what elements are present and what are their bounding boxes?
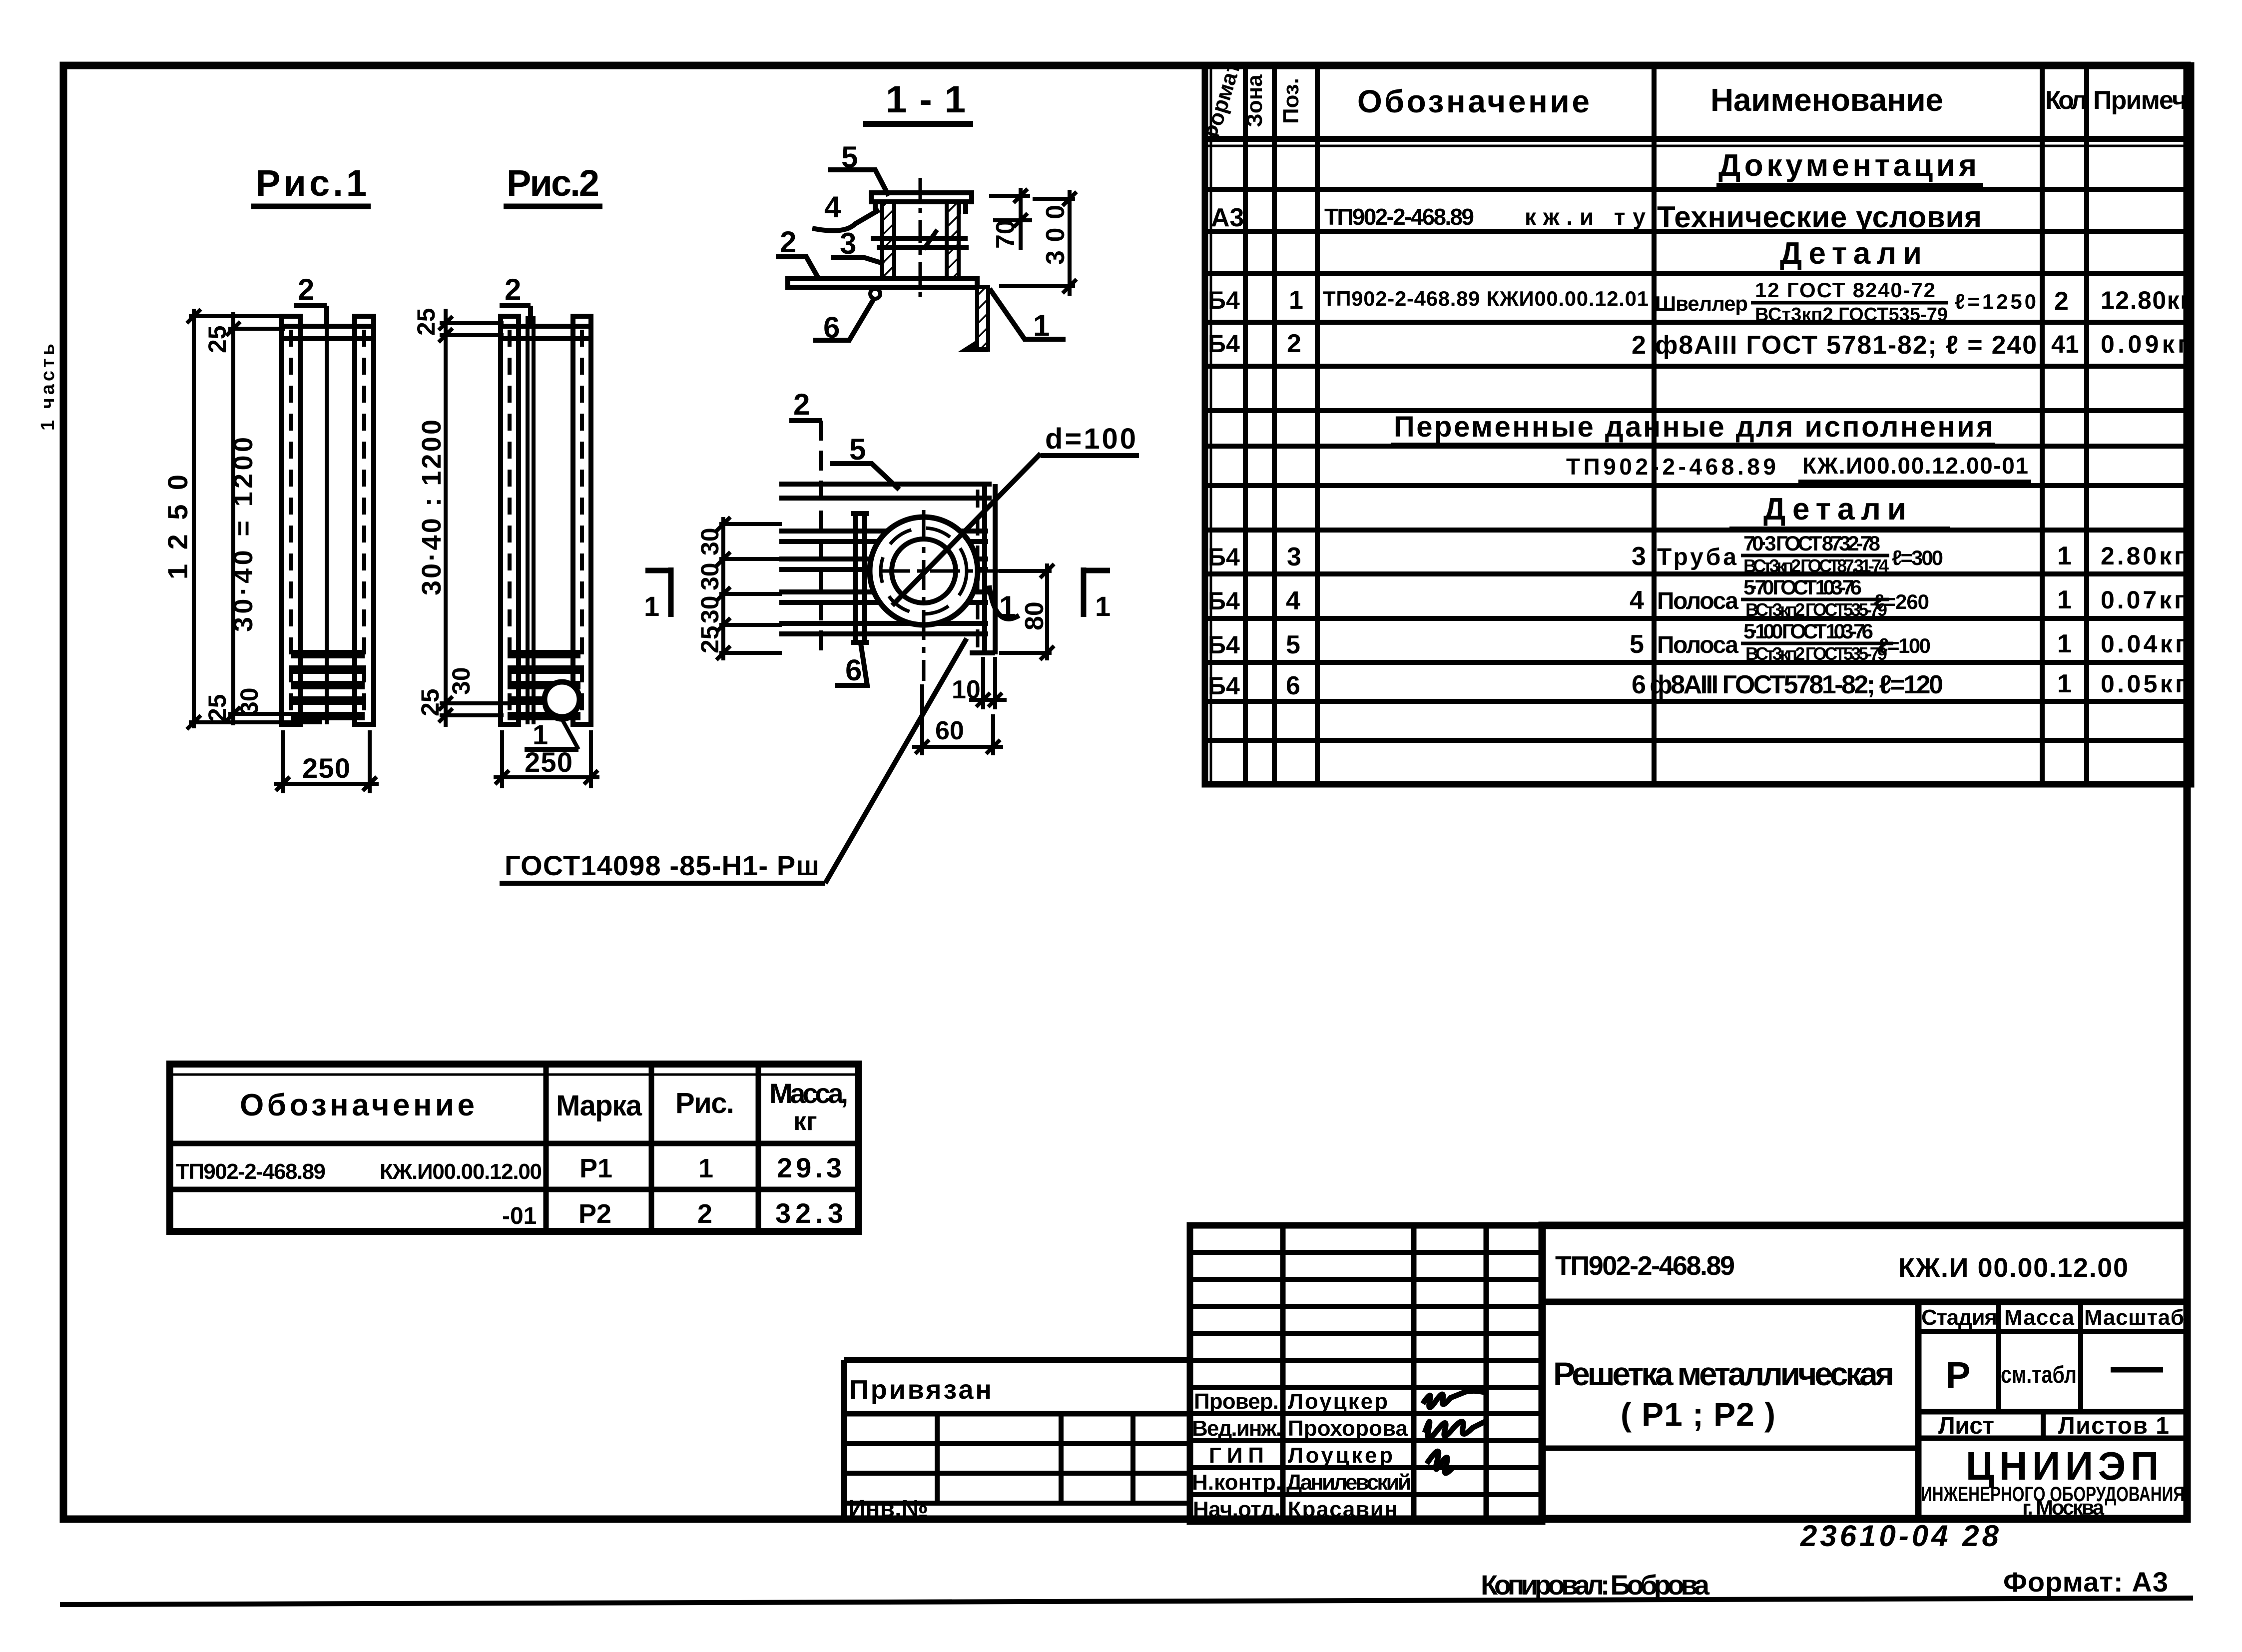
- svg-text:Инв.№: Инв.№: [848, 1496, 928, 1522]
- Рис.1 top cross bar: [281, 326, 374, 339]
- spec row: Переменные данные section: [1391, 411, 1995, 445]
- svg-text:Лист: Лист: [1938, 1413, 1994, 1439]
- svg-text:Р: Р: [1946, 1354, 1970, 1396]
- svg-text:300: 300: [1041, 205, 1070, 265]
- svg-text:Вед.инж.: Вед.инж.: [1192, 1416, 1282, 1441]
- svg-text:Примеч: Примеч: [2093, 86, 2187, 115]
- svg-text:Прохорова: Прохорова: [1288, 1416, 1408, 1441]
- svg-text:30: 30: [696, 528, 724, 555]
- svg-text:1: 1: [533, 719, 548, 750]
- plan section mark 1 right: [1084, 568, 1110, 573]
- svg-text:250: 250: [525, 746, 572, 778]
- part 4 pointer arrow: [924, 230, 937, 249]
- plan pipe inner circle: [892, 539, 956, 603]
- svg-text:Рис.1: Рис.1: [256, 162, 367, 204]
- spec row 4: Полоса 5х70: [1208, 575, 2185, 620]
- plan dim 10: [969, 657, 1007, 709]
- svg-text:Поз.: Поз.: [1279, 78, 1303, 124]
- svg-text:1 часть: 1 часть: [37, 341, 58, 431]
- svg-text:2 ф8АIII ГОСТ 5781-82; ℓ = 2: 2 ф8АIII ГОСТ 5781-82; ℓ = 240: [1632, 331, 2037, 360]
- svg-text:ℓ=260: ℓ=260: [1874, 590, 1929, 613]
- Рис.1 dim 250 bottom: [274, 730, 379, 793]
- svg-text:80: 80: [1020, 601, 1049, 630]
- svg-text:Р2: Р2: [578, 1199, 611, 1229]
- plan d=100 leader diagonal: [892, 454, 1041, 605]
- svg-text:ВСт3кп2 ГОСТ535-79: ВСт3кп2 ГОСТ535-79: [1745, 643, 1887, 664]
- Рис.2 middle bar edge lines: [526, 316, 530, 724]
- plan cut trace dashed: [819, 421, 823, 652]
- svg-text:25: 25: [203, 325, 231, 353]
- svg-text:Б4: Б4: [1208, 330, 1240, 358]
- svg-text:1: 1: [2057, 629, 2072, 658]
- Рис.1 left channel rail: [281, 316, 300, 724]
- svg-text:30·40 = 1200: 30·40 = 1200: [228, 437, 258, 632]
- svg-text:-01: -01: [502, 1203, 537, 1229]
- svg-text:70: 70: [991, 220, 1020, 249]
- svg-text:30: 30: [235, 687, 263, 715]
- svg-text:Б4: Б4: [1208, 672, 1240, 700]
- svg-text:23610-04 28: 23610-04 28: [1800, 1519, 2002, 1553]
- svg-text:Б4: Б4: [1208, 631, 1240, 659]
- svg-text:КЖ.И 00.00.12.00: КЖ.И 00.00.12.00: [1898, 1253, 2128, 1283]
- svg-text:Масса: Масса: [2004, 1305, 2075, 1330]
- svg-text:Рис.: Рис.: [675, 1087, 734, 1119]
- Рис.1 middle bar edge line: [325, 316, 329, 724]
- svg-text:2: 2: [697, 1199, 712, 1229]
- svg-text:Стадия: Стадия: [1921, 1305, 1997, 1330]
- svg-text:Нач.отд.: Нач.отд.: [1193, 1497, 1280, 1522]
- Привязан box: [844, 1360, 1190, 1522]
- svg-text:10: 10: [952, 675, 981, 704]
- svg-text:60: 60: [935, 716, 964, 745]
- spec row 3: Труба: [1208, 532, 2185, 576]
- svg-text:ГИП: ГИП: [1209, 1443, 1264, 1468]
- svg-text:ЦНИИЭП: ЦНИИЭП: [1966, 1444, 2164, 1488]
- Рис.2 pipe hole circle: [545, 682, 579, 717]
- Рис.2 dim 250 bottom: [494, 730, 599, 788]
- svg-text:3: 3: [1632, 542, 1646, 571]
- svg-text:( Р1 ; Р2 ): ( Р1 ; Р2 ): [1621, 1396, 1775, 1433]
- Рис.2 left channel rail: [501, 316, 519, 724]
- svg-text:Копировал: Боброва: Копировал: Боброва: [1481, 1569, 1710, 1601]
- svg-text:30: 30: [696, 562, 724, 590]
- svg-text:30: 30: [447, 667, 475, 695]
- svg-text:Б4: Б4: [1208, 587, 1240, 615]
- plan dim 60: [912, 684, 1003, 755]
- svg-text:41: 41: [2051, 330, 2079, 358]
- svg-text:2: 2: [2054, 287, 2069, 316]
- svg-text:Технические условия: Технические условия: [1657, 200, 1982, 234]
- Рис.1 bottom rungs: [291, 650, 365, 720]
- svg-text:6 ф8АIII ГОСТ5781-82; ℓ=120: 6 ф8АIII ГОСТ5781-82; ℓ=120: [1632, 670, 1943, 699]
- svg-text:1: 1: [1095, 590, 1111, 622]
- part 4 ring plate lines: [871, 236, 968, 241]
- svg-text:Обозначение: Обозначение: [240, 1088, 475, 1122]
- svg-text:Р1: Р1: [579, 1153, 612, 1183]
- svg-text:25: 25: [203, 694, 231, 722]
- spec row: КЖ.И00.00.12.00-01: [1566, 453, 2031, 482]
- plan bar 2: [779, 531, 988, 542]
- svg-text:Листов 1: Листов 1: [2058, 1413, 2169, 1439]
- plan bar 3: [779, 559, 988, 569]
- svg-text:1: 1: [2057, 585, 2072, 614]
- svg-text:6: 6: [845, 653, 862, 687]
- svg-text:2: 2: [505, 273, 521, 306]
- svg-text:4: 4: [1630, 586, 1644, 615]
- svg-text:Лоуцкер: Лоуцкер: [1288, 1389, 1388, 1414]
- svg-text:2: 2: [793, 388, 810, 421]
- centerline of pipe: [919, 178, 922, 297]
- svg-text:1: 1: [644, 590, 659, 622]
- part 3 pipe wall right (hatched): [947, 202, 959, 278]
- svg-text:Данилевский: Данилевский: [1286, 1470, 1411, 1495]
- svg-text:ТП902-2-468.89: ТП902-2-468.89: [1324, 204, 1474, 230]
- svg-text:ВСт3кп2 ГОСТ535-79: ВСт3кп2 ГОСТ535-79: [1745, 599, 1887, 620]
- svg-text:Зона: Зона: [1242, 74, 1267, 127]
- svg-text:4: 4: [824, 190, 841, 224]
- svg-text:d=100: d=100: [1045, 423, 1136, 455]
- svg-text:Масштаб: Масштаб: [2084, 1305, 2184, 1330]
- spec row 5: Полоса 5х100: [1208, 619, 2186, 664]
- svg-text:Красавин: Красавин: [1288, 1497, 1398, 1522]
- svg-text:кг: кг: [793, 1107, 817, 1136]
- part 2 bottom bar: [788, 278, 977, 287]
- svg-text:6: 6: [1286, 671, 1300, 700]
- title block central signature grid: [1190, 1225, 1542, 1522]
- svg-text:1: 1: [698, 1153, 713, 1183]
- svg-text:КЖ.И00.00.12.00: КЖ.И00.00.12.00: [380, 1159, 542, 1184]
- svg-text:А3: А3: [1211, 203, 1244, 232]
- plan dim 80: [999, 563, 1054, 660]
- plan stub channel part6: [851, 514, 869, 642]
- bottom copy strip line: [60, 1598, 2193, 1605]
- spec row: Документация section title: [1716, 148, 1983, 185]
- dim 70: [989, 188, 1032, 250]
- svg-text:ВСт3кп2 ГОСТ535-79: ВСт3кп2 ГОСТ535-79: [1755, 304, 1948, 325]
- Рис.2 bottom rungs: [508, 650, 580, 720]
- svg-text:Переменные данные для исполне: Переменные данные для исполнения: [1394, 411, 1993, 443]
- spec row 2: rod ф8АIII l=240: [1208, 329, 2188, 360]
- spec header texts: [1197, 59, 2187, 147]
- marks table row P2: [502, 1197, 843, 1229]
- svg-text:ГОСТ14098 -85-Н1- Рш: ГОСТ14098 -85-Н1- Рш: [505, 850, 819, 881]
- svg-text:70·3 ГОСТ 8732-78: 70·3 ГОСТ 8732-78: [1743, 532, 1880, 555]
- svg-text:ТП902-2-468.89: ТП902-2-468.89: [1555, 1251, 1735, 1281]
- svg-text:5: 5: [1630, 630, 1644, 659]
- dim 300: [999, 190, 1077, 296]
- plan top bar: [779, 484, 992, 498]
- Рис.2 top cross bar: [501, 326, 591, 339]
- svg-text:1: 1: [1289, 286, 1303, 315]
- stage mass scale header: [1921, 1305, 2184, 1330]
- marks table row P1: [176, 1152, 842, 1184]
- Рис.1 dim 30x40=1200 line: [226, 312, 356, 725]
- svg-text:Б4: Б4: [1208, 286, 1240, 314]
- svg-text:Документация: Документация: [1718, 148, 1981, 183]
- svg-text:5·100 ГОСТ 103-76: 5·100 ГОСТ 103-76: [1743, 619, 1873, 643]
- plan pipe dashed mid circle: [881, 528, 967, 614]
- svg-text:3: 3: [1287, 543, 1301, 571]
- spec row 6: rod ф8АIII l=120: [1208, 669, 2186, 700]
- svg-text:ВСт3кп2 ГОСТ87,31-74: ВСт3кп2 ГОСТ87,31-74: [1743, 555, 1889, 576]
- svg-text:ТП902-2-468.89 КЖИ00.00.12.0: ТП902-2-468.89 КЖИ00.00.12.01: [1323, 287, 1649, 310]
- svg-text:30: 30: [696, 595, 724, 623]
- svg-text:ℓ=100: ℓ=100: [1878, 634, 1931, 657]
- svg-text:Масса,: Масса,: [769, 1078, 848, 1109]
- svg-text:см.табл: см.табл: [2001, 1362, 2077, 1388]
- marks table grid: [170, 1064, 858, 1231]
- svg-text:г. Москва: г. Москва: [2022, 1496, 2105, 1519]
- svg-text:Н.контр.: Н.контр.: [1192, 1470, 1282, 1495]
- Рис.1 right channel rail: [355, 316, 374, 724]
- plan dim chain 30 30 30 25: [716, 517, 782, 660]
- svg-text:4: 4: [1286, 586, 1300, 615]
- svg-text:1: 1: [2057, 542, 2072, 570]
- svg-text:КЖ.И00.00.12.00-01: КЖ.И00.00.12.00-01: [1802, 453, 2028, 479]
- svg-text:250: 250: [302, 752, 350, 784]
- Рис.1 dim 1250 line: [187, 309, 322, 729]
- svg-text:Формат: А3: Формат: А3: [2003, 1566, 2168, 1598]
- svg-text:2: 2: [780, 225, 796, 259]
- svg-text:Рис.2: Рис.2: [507, 162, 599, 204]
- part 1 channel (hatched): [977, 287, 988, 350]
- svg-text:25: 25: [696, 625, 724, 653]
- spec row: Детали-2 section title: [1729, 492, 1950, 529]
- svg-text:Труба: Труба: [1657, 544, 1736, 570]
- svg-text:2: 2: [298, 273, 314, 306]
- svg-text:Полоса: Полоса: [1657, 588, 1738, 614]
- plan section mark 1 left: [645, 568, 671, 573]
- svg-text:Обозначение: Обозначение: [1357, 83, 1590, 119]
- svg-text:5·70 ГОСТ 103-76: 5·70 ГОСТ 103-76: [1743, 575, 1862, 599]
- svg-text:25: 25: [416, 688, 444, 716]
- svg-text:1 - 1: 1 - 1: [886, 78, 966, 121]
- part 3 pipe wall left (hatched): [882, 202, 894, 278]
- marks table header: [240, 1078, 848, 1136]
- svg-text:29.3: 29.3: [777, 1152, 842, 1183]
- Рис.2 dim 30x40:1200 line: [439, 309, 510, 727]
- plan bar 4: [779, 592, 988, 602]
- Рис.2 right channel rail: [573, 316, 591, 724]
- signature squiggles: [1423, 1391, 1486, 1407]
- part 6 rod circle: [870, 289, 880, 299]
- title block right part outline: [1542, 1225, 2187, 1519]
- svg-text:ℓ=300: ℓ=300: [1892, 546, 1943, 569]
- signature roles and names: [1192, 1389, 1411, 1522]
- svg-text:ТП902-2-468.89: ТП902-2-468.89: [176, 1159, 326, 1184]
- svg-text:Решетка металлическая: Решетка металлическая: [1553, 1355, 1894, 1392]
- svg-text:32.3: 32.3: [775, 1197, 843, 1229]
- svg-text:Полоса: Полоса: [1657, 632, 1738, 658]
- svg-text:Провер.: Провер.: [1194, 1389, 1279, 1414]
- part 5 top flange: [871, 193, 972, 214]
- plan centerline horizontal: [880, 569, 1049, 573]
- spec row: Детали section title: [1748, 236, 1952, 273]
- plan bar 5: [779, 623, 988, 634]
- svg-text:Привязан: Привязан: [849, 1375, 992, 1405]
- svg-text:Марка: Марка: [556, 1090, 642, 1122]
- svg-text:25: 25: [412, 308, 440, 336]
- svg-text:12.80кг: 12.80кг: [2101, 286, 2191, 314]
- svg-text:5: 5: [849, 433, 866, 466]
- svg-text:2: 2: [1287, 329, 1301, 358]
- svg-text:Кол: Кол: [2045, 86, 2087, 115]
- spec row: A3 Технические условия: [1211, 200, 1982, 234]
- spec table grid: [1205, 65, 2191, 784]
- plan pipe circle white fill: [870, 517, 978, 625]
- svg-text:Швеллер: Швеллер: [1655, 292, 1748, 315]
- svg-text:Б4: Б4: [1208, 543, 1240, 571]
- svg-text:5: 5: [1286, 630, 1300, 659]
- svg-text:Наименование: Наименование: [1710, 82, 1943, 118]
- svg-text:Детали: Детали: [1763, 492, 1913, 527]
- plan centerline vertical: [922, 510, 926, 681]
- plan right plate part1: [970, 484, 995, 654]
- svg-text:1: 1: [2057, 669, 2072, 698]
- spec row 1: Швеллер: [1208, 278, 2191, 325]
